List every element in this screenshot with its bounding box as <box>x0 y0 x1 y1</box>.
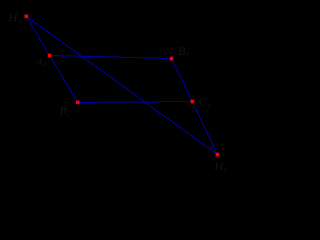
node C point <box>191 100 195 104</box>
wire segment A-B1 top side <box>50 56 172 59</box>
wire segment B1-C right side <box>172 59 193 102</box>
node H point <box>25 15 29 19</box>
wire segment H-H1 diagonal <box>26 16 217 154</box>
wire segment H-A <box>26 16 49 55</box>
node H1 point <box>216 153 220 157</box>
wire segment C-H1 <box>192 102 217 155</box>
svg-text:H: H <box>8 10 19 24</box>
node B point <box>76 101 80 105</box>
wire segment B-C bottom side <box>78 101 193 104</box>
node B1 point <box>170 57 174 61</box>
wire segment A-B <box>50 56 78 103</box>
node A point <box>48 54 52 58</box>
